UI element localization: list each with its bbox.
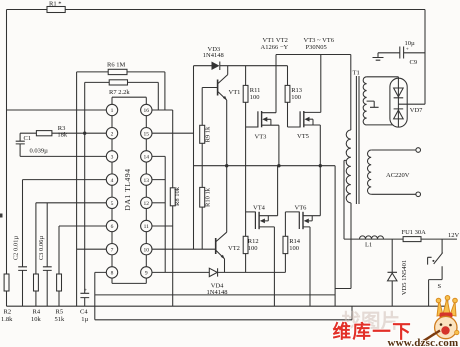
svg-text:DA1 TL494: DA1 TL494 [123,168,132,210]
svg-text:0.039µ: 0.039µ [30,148,49,155]
svg-text:VT5: VT5 [297,133,309,140]
svg-text:R9 1k: R9 1k [204,126,211,142]
svg-text:AC220V: AC220V [386,172,410,179]
svg-text:VT2: VT2 [228,245,240,252]
svg-text:VT1: VT1 [229,89,241,96]
svg-text:15: 15 [144,131,150,137]
svg-text:+: + [84,288,87,294]
svg-text:www.dzsc.com: www.dzsc.com [388,337,459,347]
svg-text:1µ: 1µ [81,316,88,323]
svg-text:C3 0.06µ: C3 0.06µ [38,236,45,261]
svg-text:18k: 18k [57,132,68,139]
svg-text:P30N05: P30N05 [306,44,327,51]
svg-text:1N4148: 1N4148 [203,52,224,59]
svg-text:1: 1 [111,108,114,114]
svg-text:2: 2 [111,131,114,137]
svg-text:9: 9 [145,271,148,277]
svg-text:VD7: VD7 [410,107,423,114]
svg-text:R10 1k: R10 1k [204,187,211,207]
svg-text:16: 16 [144,108,150,114]
svg-text:12V: 12V [448,232,460,239]
svg-text:R1 *: R1 * [49,1,61,8]
svg-text:VT4: VT4 [253,204,266,211]
svg-text:R11: R11 [250,87,261,94]
svg-text:100: 100 [248,245,258,252]
svg-text:10k: 10k [31,316,42,323]
svg-text:3: 3 [111,155,114,161]
svg-text:12: 12 [144,201,150,207]
svg-text:100: 100 [291,94,301,101]
svg-text:R8 10k: R8 10k [174,186,181,206]
svg-text:C9: C9 [410,59,418,66]
svg-text:14: 14 [144,155,150,161]
svg-text:VT3: VT3 [255,134,267,141]
svg-text:T1: T1 [353,70,360,77]
svg-text:R7 2.2k: R7 2.2k [109,89,130,96]
svg-text:FU1 30A: FU1 30A [402,229,427,236]
svg-text:R14: R14 [289,238,301,245]
svg-text:VT1 VT2: VT1 VT2 [263,37,288,44]
svg-text:13: 13 [144,178,150,184]
svg-text:51k: 51k [55,316,66,323]
svg-text:R12: R12 [248,238,259,245]
svg-text:VT6: VT6 [295,205,308,212]
svg-text:4: 4 [111,178,114,184]
svg-text:11: 11 [144,224,150,230]
svg-text:6: 6 [111,224,114,230]
svg-text:100: 100 [289,245,299,252]
svg-text:VD5 1N5401: VD5 1N5401 [401,260,408,295]
svg-text:A1266 −Y: A1266 −Y [261,44,289,51]
svg-text:R13: R13 [291,87,302,94]
svg-text:L1: L1 [365,241,372,248]
svg-text:R6 1M: R6 1M [107,62,125,69]
svg-text:7: 7 [111,247,114,253]
svg-text:10: 10 [144,247,150,253]
svg-text:8: 8 [111,271,114,277]
svg-text:R5: R5 [56,308,64,315]
svg-text:+: + [406,47,409,53]
svg-text:R2: R2 [4,308,12,315]
svg-text:100: 100 [250,94,260,101]
svg-text:C1: C1 [24,135,32,142]
svg-text:C2 0.01µ: C2 0.01µ [13,236,20,261]
svg-text:R4: R4 [33,308,41,315]
svg-text:1N4148: 1N4148 [207,289,228,296]
svg-text:C4: C4 [80,308,88,315]
svg-text:1.8k: 1.8k [1,316,13,323]
svg-text:S: S [438,283,442,290]
svg-text:5: 5 [111,201,114,207]
svg-text:VT3 ~ VT6: VT3 ~ VT6 [304,37,335,44]
